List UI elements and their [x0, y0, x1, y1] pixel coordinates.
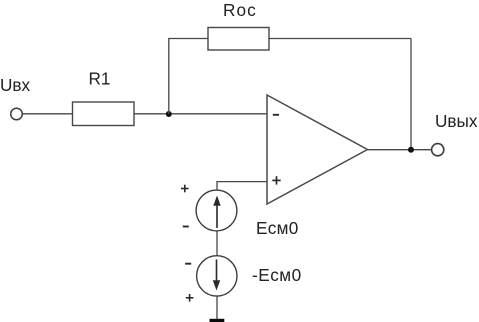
wire input to R1 [23, 113, 73, 115]
resistor Roc [208, 28, 269, 51]
wire non-inverting input horizontal [217, 181, 267, 183]
svg-text:Uвых: Uвых [435, 111, 478, 131]
op-amp non-inverting pin mark + [272, 176, 280, 184]
arrow inside -Ecм0 pointing down [213, 260, 220, 291]
op-amp U1 [267, 95, 368, 204]
junction node A [166, 111, 172, 117]
wire op-amp output [368, 149, 432, 151]
svg-text:Eсм0: Eсм0 [256, 218, 299, 238]
op-amp inverting pin mark - [273, 114, 279, 116]
polarity minus of -Ecм0 [185, 263, 191, 265]
polarity minus of Ecм0 [183, 226, 189, 228]
wire R1 to inverting input [134, 113, 267, 115]
voltage source -Ecм0 [197, 256, 237, 296]
terminal Uвых [432, 144, 444, 156]
svg-text:Uвх: Uвх [0, 75, 31, 95]
resistor R1 [73, 102, 135, 126]
wire junction up to feedback [168, 39, 170, 115]
wire source to ground [216, 296, 218, 319]
wire between sources [216, 231, 218, 256]
voltage source Ecм0 [196, 190, 237, 231]
arrow inside Ecм0 pointing up [213, 196, 220, 229]
terminal Uвх [11, 108, 23, 120]
wire feedback down to output [410, 39, 412, 150]
wire feedback right segment [269, 38, 411, 40]
svg-text:-Eсм0: -Eсм0 [252, 265, 302, 285]
svg-text:R1: R1 [89, 69, 111, 89]
wire non-inverting input down to source [216, 181, 218, 190]
polarity plus of -Ecм0 [186, 294, 194, 302]
polarity plus of Ecм0 [181, 185, 189, 193]
svg-text:Roc: Roc [223, 0, 257, 20]
ground [210, 319, 225, 322]
wire feedback left segment [168, 38, 208, 40]
junction output node [408, 147, 414, 153]
